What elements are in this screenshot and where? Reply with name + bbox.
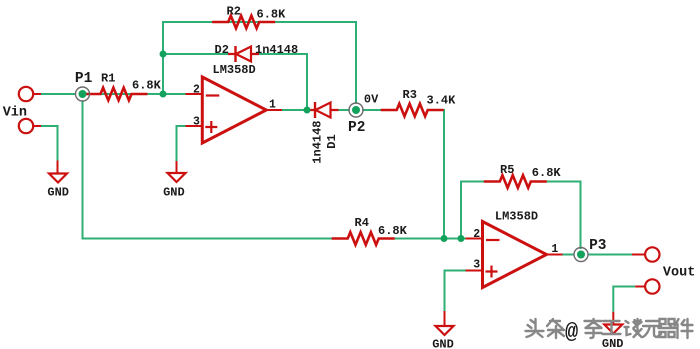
svg-text:6.8K: 6.8K	[378, 224, 408, 238]
svg-text:2: 2	[193, 84, 200, 97]
svg-text:3: 3	[193, 116, 200, 129]
svg-text:6.8K: 6.8K	[132, 79, 162, 93]
svg-text:LM358D: LM358D	[213, 63, 256, 77]
svg-text:R2: R2	[227, 5, 241, 19]
svg-text:Vout: Vout	[663, 266, 695, 281]
svg-text:6.8K: 6.8K	[532, 166, 562, 180]
svg-text:P1: P1	[75, 71, 93, 87]
svg-text:2: 2	[473, 228, 480, 241]
svg-text:R5: R5	[500, 163, 514, 177]
svg-text:1: 1	[269, 99, 276, 112]
svg-text:D2: D2	[215, 43, 229, 57]
svg-text:0V: 0V	[364, 92, 379, 106]
svg-text:R3: R3	[403, 88, 417, 102]
svg-text:GND: GND	[47, 186, 69, 200]
svg-text:1n4148: 1n4148	[311, 120, 325, 163]
svg-text:@: @	[565, 320, 578, 345]
svg-text:3.4K: 3.4K	[427, 94, 457, 108]
svg-text:D1: D1	[325, 134, 339, 148]
svg-text:R1: R1	[101, 72, 115, 86]
svg-text:3: 3	[473, 259, 480, 272]
svg-text:P2: P2	[348, 120, 365, 136]
svg-text:R4: R4	[355, 216, 369, 230]
svg-text:GND: GND	[163, 186, 185, 200]
svg-text:GND: GND	[432, 338, 454, 349]
svg-text:GND: GND	[602, 337, 624, 349]
svg-text:1n4148: 1n4148	[255, 43, 298, 57]
svg-text:Vin: Vin	[3, 106, 27, 121]
svg-text:6.8K: 6.8K	[257, 8, 287, 22]
svg-text:P3: P3	[589, 238, 606, 254]
svg-text:LM358D: LM358D	[495, 210, 538, 224]
svg-text:1: 1	[551, 243, 558, 256]
